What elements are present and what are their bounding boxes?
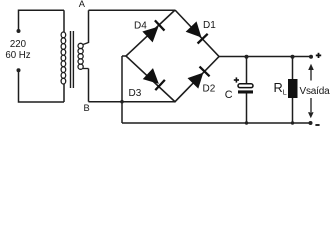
junction dot cap bottom	[245, 121, 248, 124]
resistor RL body	[288, 79, 298, 98]
diode D4	[142, 20, 164, 42]
Vsaida arrow up	[310, 69, 312, 81]
wire bridge left vertex link	[122, 55, 126, 57]
svg-text:C: C	[225, 89, 233, 101]
wire capacitor top lead	[246, 57, 248, 85]
wire top rail	[219, 56, 311, 58]
diode D2	[188, 66, 210, 88]
svg-text:220: 220	[10, 39, 27, 50]
wire load bottom lead	[292, 98, 294, 124]
svg-text:60 Hz: 60 Hz	[5, 50, 30, 61]
junction dot load bottom	[291, 121, 294, 124]
junction dot output minus terminal	[309, 121, 313, 125]
output minus sign	[315, 124, 319, 126]
transformer T1 primary coil	[61, 32, 66, 84]
svg-text:R: R	[274, 80, 283, 95]
transformer T1 core	[71, 31, 74, 88]
transformer T1 secondary coil	[78, 43, 89, 70]
junction dot source bottom terminal	[17, 68, 21, 72]
svg-text:B: B	[84, 103, 90, 113]
svg-text:D4: D4	[134, 21, 147, 32]
wire secondary bottom lead	[88, 69, 90, 102]
wire primary top lead	[63, 10, 65, 32]
diode D1	[186, 21, 208, 43]
svg-text:L: L	[283, 88, 287, 97]
capacitor C plates	[238, 84, 253, 94]
junction dot output plus terminal	[309, 55, 313, 59]
svg-text:D2: D2	[203, 84, 216, 95]
svg-text:D3: D3	[129, 88, 142, 99]
wire source bottom	[19, 72, 65, 103]
wire secondary top lead	[88, 10, 90, 43]
svg-text:D1: D1	[203, 20, 216, 31]
svg-text:A: A	[79, 0, 86, 9]
junction dot cap top	[245, 55, 249, 59]
wire load top lead	[292, 57, 294, 80]
junction node B-vertical	[120, 100, 124, 104]
wire capacitor bottom lead	[246, 94, 248, 124]
capacitor plus sign	[234, 77, 239, 82]
Vsaida arrow down	[310, 98, 312, 112]
junction dot load top	[291, 55, 295, 59]
wire bottom rail	[122, 122, 311, 124]
wire source top	[19, 10, 65, 30]
diode D3	[143, 68, 165, 90]
wire left vertex to bottom rail	[121, 56, 123, 123]
bridge diamond edges	[126, 10, 219, 102]
svg-text:Vsaída: Vsaída	[300, 86, 331, 97]
wire node B bottom	[89, 101, 176, 103]
output plus sign	[316, 53, 321, 58]
wire primary bottom lead	[63, 84, 65, 102]
junction dot source top terminal	[17, 29, 21, 33]
wire node A top rail	[89, 9, 176, 11]
